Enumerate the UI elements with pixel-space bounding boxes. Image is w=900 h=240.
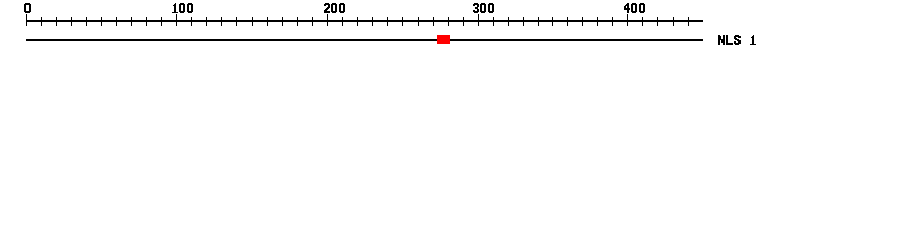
ruler scale label 0 [24,3,31,13]
ruler major ticks (0,100,200,300,400) [27,14,628,26]
ruler minor ticks (every 10 residues) [42,17,689,26]
ruler scale label 300 [473,3,494,13]
ruler scale label 200 [324,3,345,13]
ruler axis line [26,20,703,22]
ruler scale label 400 [624,3,645,13]
background [0,0,900,58]
feature label NLS 1 [718,35,756,45]
protein backbone line [26,39,703,41]
NLS domain box (red) [437,35,450,44]
ruler scale label 100 [172,3,193,13]
